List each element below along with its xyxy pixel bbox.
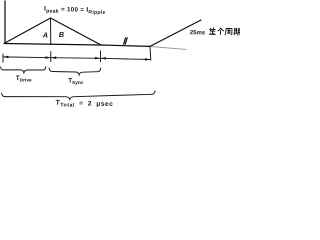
rising line next period <box>150 20 201 46</box>
svg-text:A: A <box>42 30 48 39</box>
svg-text:TSync: TSync <box>68 77 84 86</box>
dimension line TDrive span <box>3 54 51 63</box>
tick at start of next period <box>149 46 152 60</box>
svg-text:Ipeak = 100 = IRipple: Ipeak = 100 = IRipple <box>44 6 106 16</box>
label TTotal = 2 usec <box>55 100 113 110</box>
char zhou <box>225 28 232 35</box>
label CJK whole period <box>209 27 240 35</box>
triangle waveform <box>4 18 101 45</box>
svg-text:TTotal = 2 μsec: TTotal = 2 μsec <box>55 100 113 110</box>
baseline <box>5 44 151 47</box>
dimension line flat span <box>101 51 151 63</box>
char qi <box>233 28 240 36</box>
vertical axis <box>4 1 6 44</box>
baseline faint extension <box>150 46 186 49</box>
dimension line TSync span <box>51 51 101 62</box>
top label Ipeak = 100 = IRipple <box>44 6 106 16</box>
char ge <box>218 28 224 35</box>
brace TSync <box>49 68 101 75</box>
svg-text:TDrive: TDrive <box>16 75 32 84</box>
svg-text:25ms: 25ms <box>190 30 206 36</box>
brace TDrive <box>1 66 46 72</box>
svg-text:B: B <box>59 30 64 39</box>
brace TTotal <box>2 90 156 99</box>
break mark <box>124 38 128 44</box>
char zheng <box>209 27 216 34</box>
peak divider <box>50 19 52 45</box>
